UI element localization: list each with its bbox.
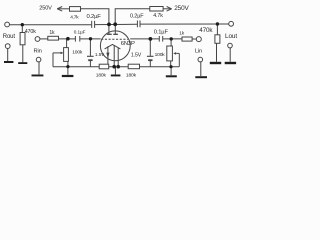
svg-text:Rin: Rin [34,49,42,55]
svg-text:0.1µF: 0.1µF [74,30,86,35]
svg-text:180k: 180k [126,73,137,79]
svg-text:4.7k: 4.7k [70,14,79,20]
svg-text:Lin: Lin [195,48,202,54]
svg-text:250V: 250V [174,5,189,12]
svg-text:1k: 1k [179,31,185,37]
svg-text:1.5V: 1.5V [95,52,105,57]
svg-text:0.1µF: 0.1µF [154,30,169,36]
svg-text:100k: 100k [155,52,166,58]
svg-text:470k: 470k [199,27,213,34]
svg-text:Lout: Lout [225,33,237,40]
svg-text:470k: 470k [25,29,37,35]
svg-text:100k: 100k [72,49,83,55]
svg-text:0.2µF: 0.2µF [130,14,144,20]
svg-text:6N3P: 6N3P [121,41,135,47]
svg-text:Rout: Rout [3,34,16,40]
svg-text:4.7k: 4.7k [153,13,163,19]
svg-text:1.5V: 1.5V [131,53,142,59]
svg-text:1k: 1k [49,30,55,36]
svg-text:0.2µF: 0.2µF [87,14,102,20]
svg-text:180k: 180k [96,73,107,79]
svg-text:250V: 250V [39,5,52,11]
